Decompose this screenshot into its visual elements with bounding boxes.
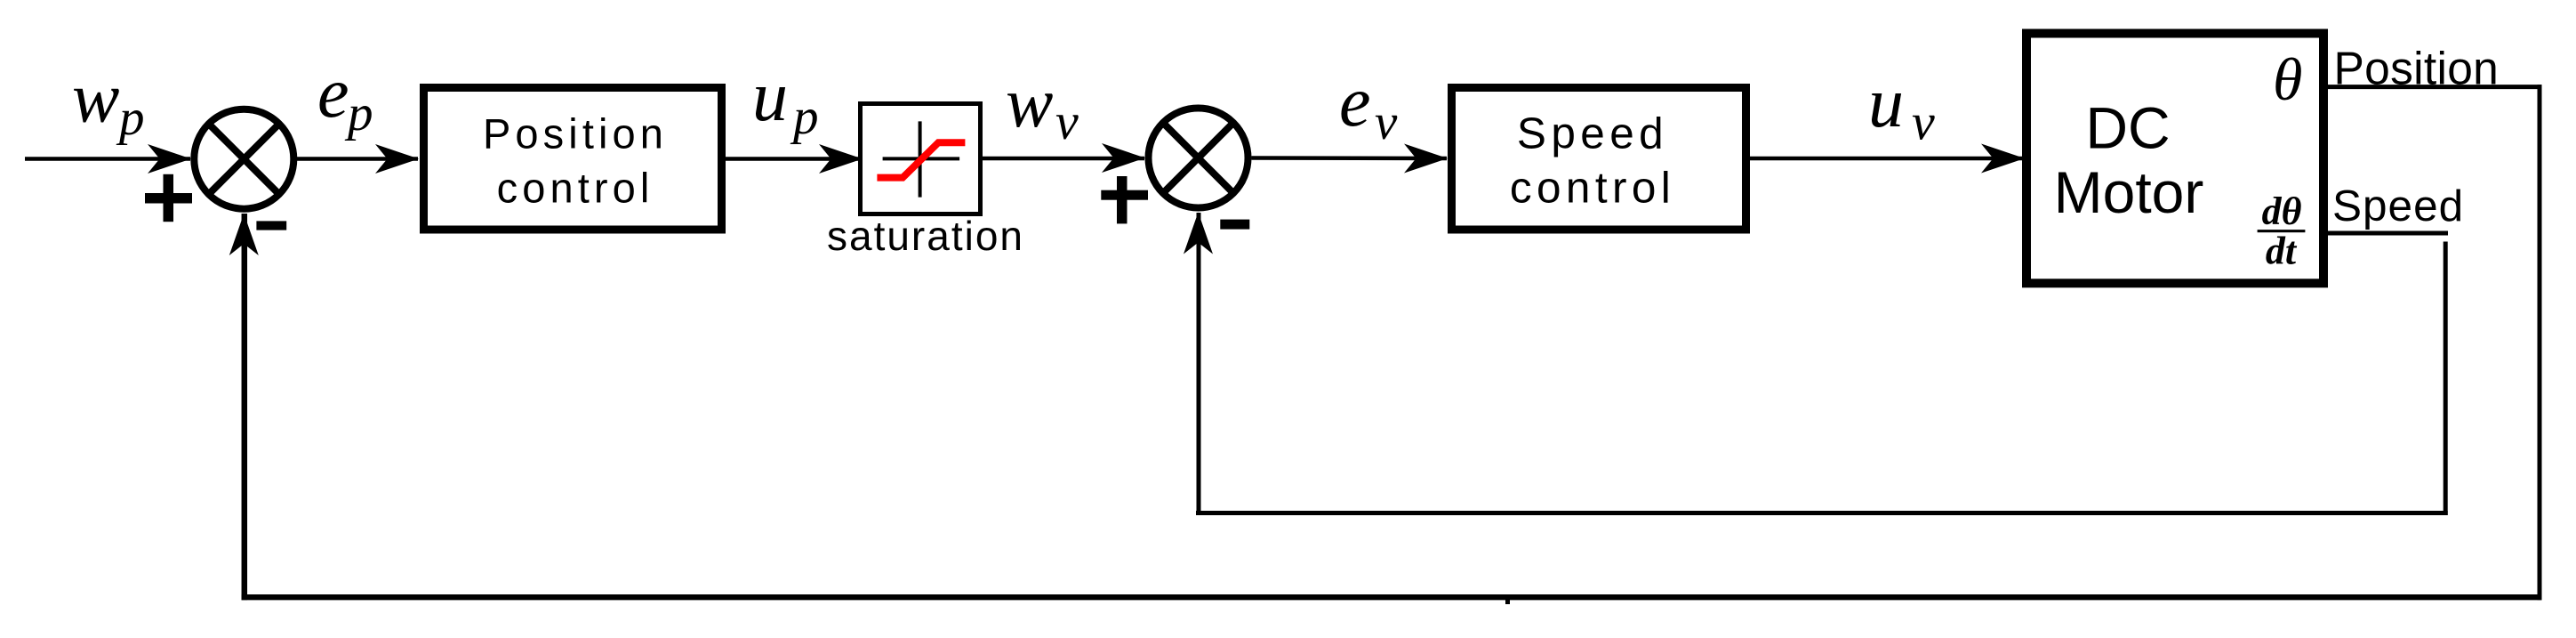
saturation horizontal axis	[883, 157, 960, 160]
svg-text:v: v	[1055, 93, 1079, 150]
svg-text:p: p	[790, 89, 819, 145]
S2 plus sign	[1101, 176, 1148, 223]
wire saturation to S2	[983, 157, 1144, 161]
label u_p	[752, 58, 819, 145]
wire Position feedback left vertical	[242, 214, 248, 600]
wire Speed output horizontal	[2328, 231, 2448, 236]
text Position control	[483, 110, 668, 212]
arrowhead up into S1	[229, 214, 259, 255]
text Speed control	[1510, 109, 1675, 213]
svg-text:w: w	[1006, 64, 1053, 142]
summing junction S2 cross	[1163, 123, 1234, 194]
label dtheta/dt fraction	[2258, 190, 2306, 273]
arrowhead into S2	[1102, 143, 1145, 173]
wire Position control to saturation	[726, 157, 862, 161]
label u_v	[1868, 64, 1935, 151]
summing junction S1	[194, 109, 293, 209]
label e_p	[317, 54, 373, 141]
arrowhead up into S2	[1184, 213, 1213, 254]
arrowhead into DC Motor	[1981, 144, 2025, 174]
saturation vertical axis	[919, 121, 922, 197]
block DC Motor	[2026, 34, 2323, 284]
wire Speed feedback right vertical	[2444, 242, 2448, 516]
svg-text:Motor: Motor	[2054, 159, 2204, 225]
svg-text:θ: θ	[2273, 45, 2302, 113]
wire S1 to Position control	[297, 157, 418, 161]
arrowhead into Position control	[375, 144, 419, 174]
wire Speed feedback left vertical	[1197, 213, 1201, 515]
label w_p	[72, 60, 145, 147]
junction artifact tick on bottom wire	[1505, 600, 1510, 604]
svg-text:u: u	[1868, 64, 1904, 142]
svg-text:v: v	[1912, 93, 1935, 151]
svg-text:p: p	[344, 85, 373, 141]
arrowhead into Speed control	[1404, 144, 1448, 174]
svg-text:w: w	[72, 60, 119, 138]
arrowhead into saturation	[819, 144, 863, 174]
svg-text:Position: Position	[483, 110, 668, 157]
svg-text:e: e	[1339, 63, 1371, 141]
S1 plus sign	[145, 174, 192, 222]
svg-text:dt: dt	[2266, 230, 2298, 273]
svg-text:dθ: dθ	[2262, 190, 2302, 233]
saturation curve red	[877, 142, 965, 177]
wire Position output horizontal	[2328, 85, 2542, 89]
svg-text:Speed: Speed	[2332, 182, 2464, 230]
wire Speed feedback bottom horizontal	[1196, 511, 2448, 515]
wire S2 to Speed control	[1252, 156, 1448, 160]
svg-text:Speed: Speed	[1517, 109, 1668, 158]
arrowhead into summing junction S1	[148, 144, 191, 174]
S1 minus sign	[256, 221, 286, 230]
svg-text:saturation: saturation	[827, 213, 1024, 259]
summing junction S2	[1149, 109, 1248, 208]
label w_v	[1006, 64, 1079, 150]
svg-text:DC: DC	[2085, 95, 2170, 161]
label e_v	[1339, 63, 1398, 150]
block saturation	[861, 104, 981, 214]
wire Speed control to DC Motor	[1750, 157, 2024, 161]
wire Position feedback right vertical	[2538, 85, 2542, 600]
wire Position feedback bottom horizontal	[242, 594, 2542, 600]
svg-text:u: u	[752, 58, 788, 136]
svg-text:p: p	[116, 90, 145, 146]
text DC Motor	[2054, 95, 2204, 226]
wire setpoint input	[25, 157, 190, 161]
S2 minus sign	[1220, 220, 1249, 230]
block Position control	[424, 88, 722, 230]
svg-text:e: e	[317, 54, 349, 133]
svg-text:control: control	[497, 165, 654, 212]
block Speed control	[1452, 88, 1746, 230]
svg-text:control: control	[1510, 164, 1675, 213]
summing junction S1 cross	[209, 124, 280, 195]
svg-text:v: v	[1375, 94, 1398, 150]
